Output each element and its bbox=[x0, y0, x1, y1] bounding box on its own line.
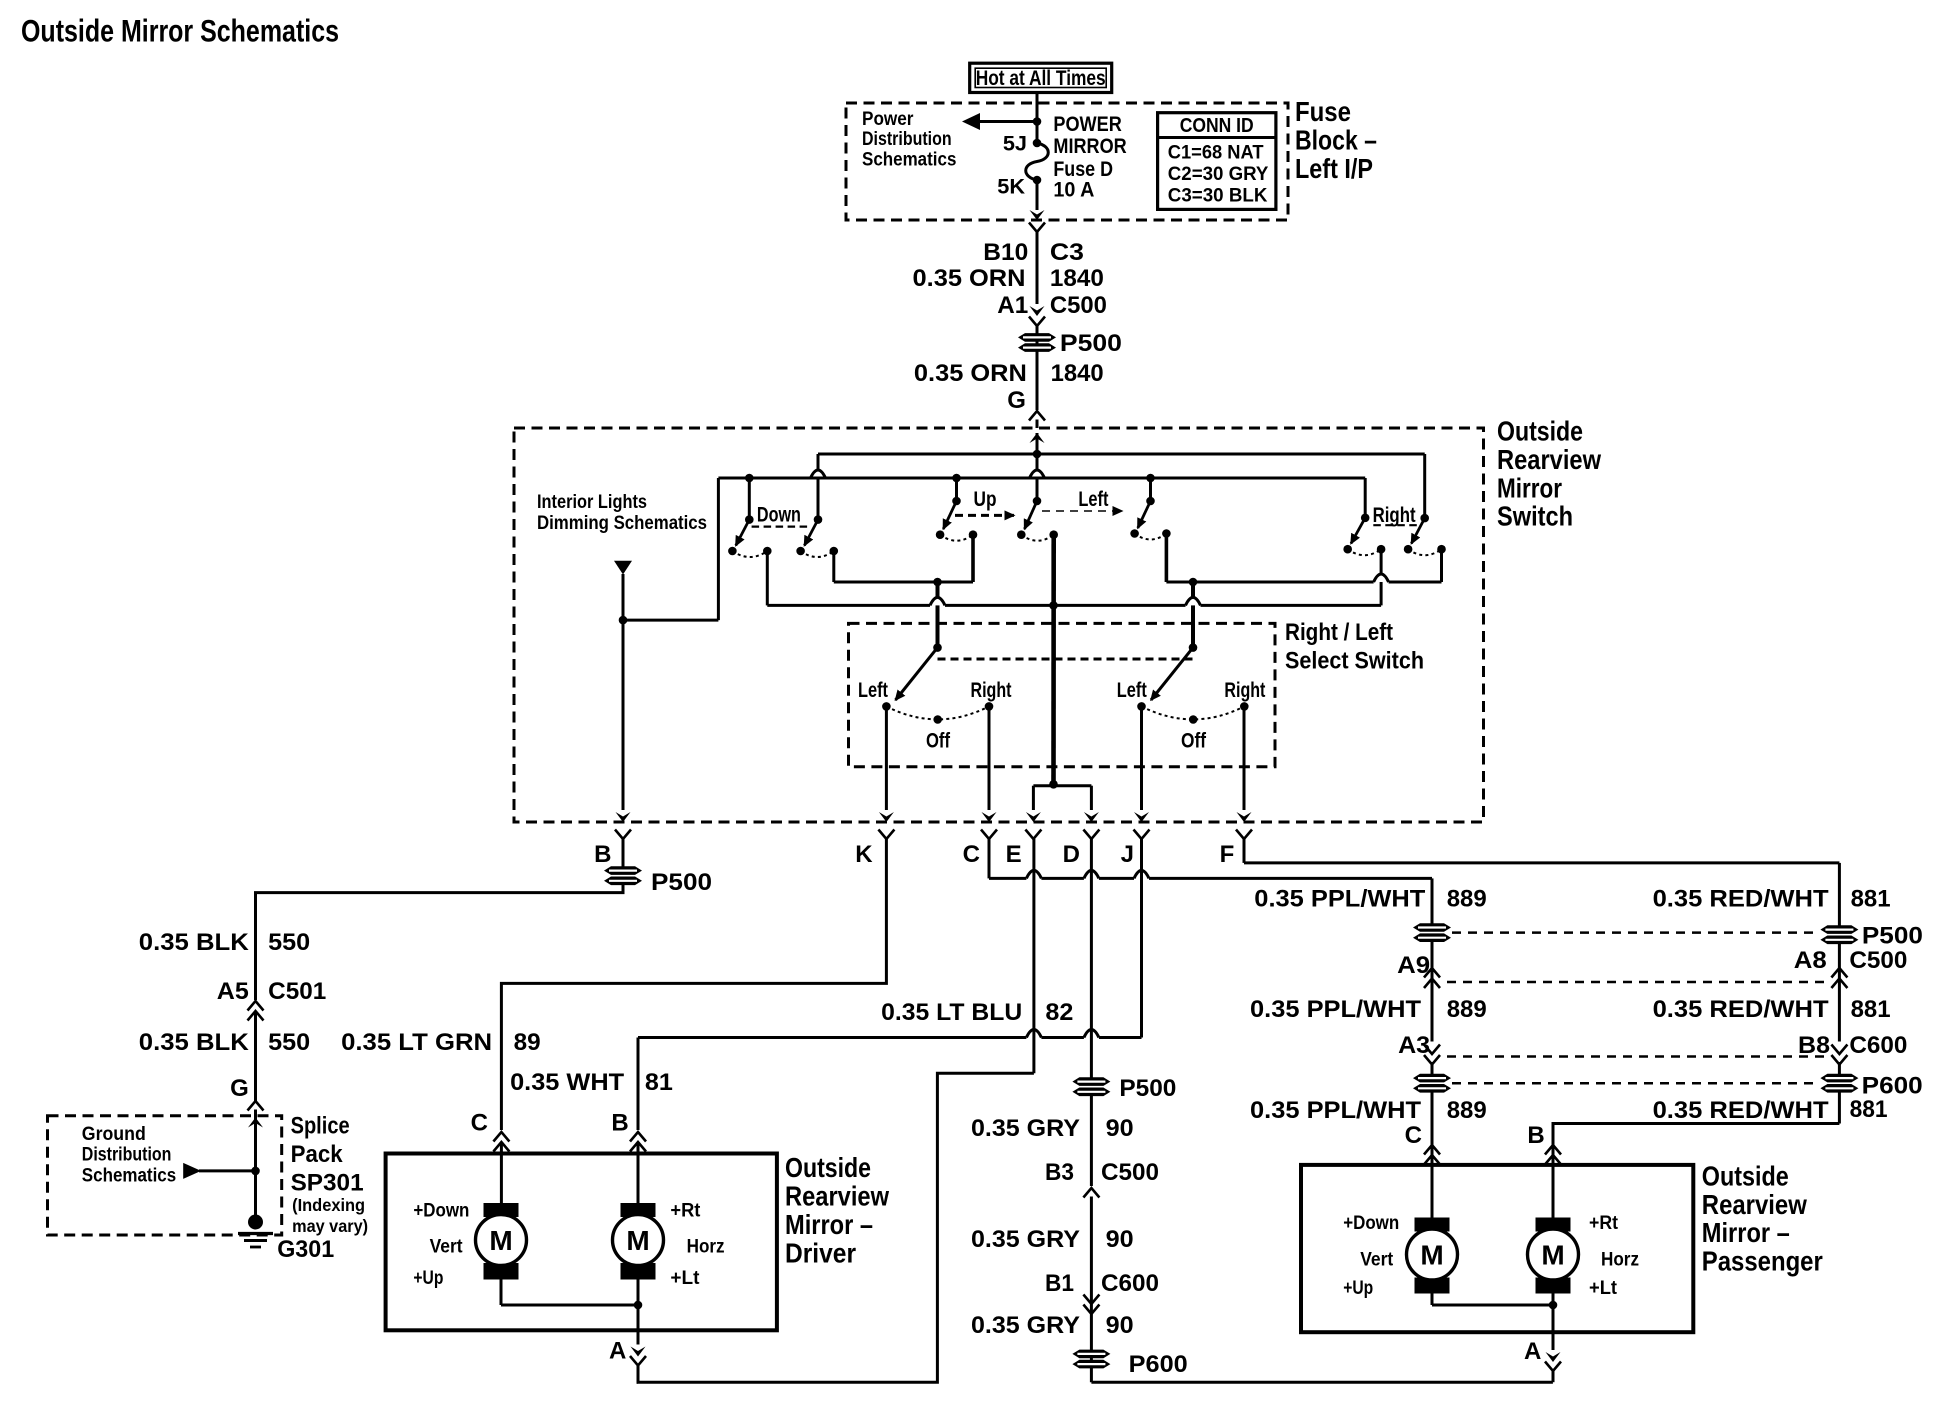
passenger motor common wire bbox=[1431, 1294, 1434, 1306]
junction bbox=[1033, 117, 1042, 126]
svg-text:90: 90 bbox=[1106, 1312, 1134, 1339]
svg-text:B10: B10 bbox=[983, 239, 1028, 266]
svg-text:Dimming Schematics: Dimming Schematics bbox=[537, 513, 707, 534]
wire sw1R to bus3 bbox=[766, 551, 769, 605]
driver B chevrons bbox=[630, 1132, 646, 1142]
svg-text:Switch: Switch bbox=[1497, 501, 1573, 532]
hot at all times box bbox=[970, 63, 1112, 92]
svg-text:Left: Left bbox=[1078, 488, 1108, 511]
svg-text:C: C bbox=[1405, 1122, 1422, 1149]
svg-text:C3=30 BLK: C3=30 BLK bbox=[1168, 186, 1268, 207]
svg-text:Schematics: Schematics bbox=[82, 1165, 176, 1186]
connector P600 on RED/WHT bbox=[1820, 1074, 1858, 1083]
connector C500 crossing arrow bbox=[1030, 306, 1045, 316]
svg-text:B: B bbox=[611, 1110, 628, 1137]
svg-text:M: M bbox=[1541, 1240, 1564, 1271]
svg-text:0.35 RED/WHT: 0.35 RED/WHT bbox=[1653, 1097, 1829, 1124]
svg-text:B: B bbox=[594, 841, 611, 868]
svg-text:C501: C501 bbox=[268, 978, 326, 1005]
driver horz motor bbox=[621, 1203, 656, 1217]
wire fuse output B10/C3 bbox=[1029, 223, 1045, 233]
svg-text:M: M bbox=[489, 1225, 512, 1256]
svg-text:C1=68 NAT: C1=68 NAT bbox=[1168, 143, 1264, 164]
svg-text:+Down: +Down bbox=[413, 1201, 469, 1222]
svg-text:MIRROR: MIRROR bbox=[1053, 133, 1127, 158]
svg-text:F: F bbox=[1220, 841, 1235, 868]
down linkage bbox=[752, 525, 810, 527]
right linkage bbox=[1373, 524, 1419, 526]
svg-text:90: 90 bbox=[1106, 1226, 1134, 1253]
svg-text:Pack: Pack bbox=[291, 1141, 344, 1168]
svg-text:+Down: +Down bbox=[1343, 1213, 1399, 1234]
B8 chevrons bbox=[1831, 1045, 1847, 1055]
outside rearview mirror driver box bbox=[386, 1154, 777, 1331]
svg-text:Right: Right bbox=[1224, 679, 1265, 702]
svg-text:Passenger: Passenger bbox=[1702, 1246, 1823, 1277]
svg-text:Mirror –: Mirror – bbox=[1702, 1217, 1790, 1248]
svg-text:5K: 5K bbox=[997, 174, 1025, 199]
svg-text:K: K bbox=[855, 841, 873, 868]
connector P500 bbox=[1018, 333, 1056, 342]
svg-text:+Rt: +Rt bbox=[1589, 1213, 1619, 1234]
svg-text:Mirror –: Mirror – bbox=[785, 1209, 873, 1240]
svg-text:SP301: SP301 bbox=[291, 1170, 364, 1197]
left linkage arrow bbox=[1042, 510, 1122, 512]
wire to power distribution with arrow bbox=[979, 120, 1037, 123]
svg-text:P500: P500 bbox=[1060, 330, 1122, 357]
connector P600 on D wire bbox=[1072, 1350, 1110, 1359]
connector P500 on RED/WHT bbox=[1820, 925, 1858, 934]
svg-text:C2=30 GRY: C2=30 GRY bbox=[1168, 164, 1269, 185]
svg-text:P500: P500 bbox=[651, 869, 712, 896]
svg-text:C600: C600 bbox=[1849, 1032, 1907, 1059]
svg-text:881: 881 bbox=[1851, 996, 1891, 1023]
svg-text:G301: G301 bbox=[277, 1236, 334, 1263]
svg-text:550: 550 bbox=[268, 929, 310, 956]
svg-text:D: D bbox=[1063, 841, 1080, 868]
svg-text:0.35 BLK: 0.35 BLK bbox=[139, 1029, 250, 1056]
svg-text:G: G bbox=[230, 1075, 249, 1102]
connector P500 on B wire bbox=[604, 866, 642, 875]
svg-text:889: 889 bbox=[1447, 886, 1487, 913]
switch left bbox=[1146, 497, 1155, 506]
wire sw2R to bus4 bbox=[832, 551, 835, 582]
svg-text:Right: Right bbox=[971, 679, 1012, 702]
right/left select switch box bbox=[849, 623, 1276, 766]
select contact wires to outputs K C J F bbox=[885, 706, 888, 810]
select linkage bbox=[938, 658, 1194, 661]
svg-text:10 A: 10 A bbox=[1053, 177, 1094, 202]
svg-text:B8: B8 bbox=[1798, 1032, 1830, 1059]
wire interior lights to B output bbox=[622, 574, 625, 810]
switch down B bbox=[814, 515, 823, 524]
svg-text:0.35 ORN: 0.35 ORN bbox=[914, 360, 1027, 387]
wire J to driver mirror B bbox=[1140, 839, 1143, 1038]
svg-text:C500: C500 bbox=[1050, 292, 1107, 319]
svg-text:81: 81 bbox=[645, 1069, 673, 1096]
driver vert motor bbox=[484, 1203, 519, 1217]
svg-text:550: 550 bbox=[268, 1029, 310, 1056]
svg-text:Outside: Outside bbox=[1702, 1160, 1789, 1191]
svg-text:B: B bbox=[1527, 1122, 1544, 1149]
svg-text:Vert: Vert bbox=[1360, 1250, 1394, 1271]
wire sw5R to bus5 bbox=[1165, 534, 1169, 583]
svg-text:+Rt: +Rt bbox=[670, 1201, 701, 1222]
svg-text:889: 889 bbox=[1447, 1097, 1487, 1124]
svg-text:Distribution: Distribution bbox=[862, 129, 952, 150]
up linkage arrow bbox=[955, 514, 1014, 517]
bus2 bbox=[718, 477, 1365, 480]
bus4 bbox=[834, 581, 973, 584]
svg-text:P600: P600 bbox=[1129, 1351, 1188, 1378]
ground distribution box bbox=[48, 1116, 282, 1235]
svg-text:B1: B1 bbox=[1045, 1270, 1074, 1297]
connector B3/C500 chevron bbox=[1083, 1188, 1099, 1198]
stem bus4 to select left pivot bbox=[936, 582, 940, 598]
A3 chevrons bbox=[1424, 1045, 1440, 1055]
passenger vert motor bbox=[1415, 1218, 1450, 1232]
svg-text:Right / Left: Right / Left bbox=[1285, 619, 1393, 646]
svg-text:Ground: Ground bbox=[82, 1124, 146, 1145]
svg-text:A: A bbox=[609, 1338, 626, 1365]
CONN ID table bbox=[1158, 113, 1276, 210]
wire F to passenger mirror B bbox=[1243, 839, 1246, 863]
svg-text:A: A bbox=[1524, 1338, 1541, 1365]
G entry arrow into switch bbox=[1030, 433, 1045, 443]
svg-text:881: 881 bbox=[1850, 1096, 1888, 1123]
ground distribution takeoff arrow bbox=[199, 1169, 256, 1172]
svg-text:89: 89 bbox=[514, 1029, 541, 1056]
svg-text:+Up: +Up bbox=[413, 1268, 443, 1289]
connector B1/C600 chevrons bbox=[1083, 1295, 1099, 1305]
svg-text:Off: Off bbox=[1181, 730, 1207, 753]
svg-text:+Lt: +Lt bbox=[670, 1268, 700, 1289]
svg-text:0.35 GRY: 0.35 GRY bbox=[971, 1115, 1080, 1142]
svg-text:B3: B3 bbox=[1045, 1159, 1074, 1186]
svg-text:0.35 PPL/WHT: 0.35 PPL/WHT bbox=[1250, 1097, 1421, 1124]
svg-text:J: J bbox=[1121, 841, 1134, 868]
svg-text:0.35 BLK: 0.35 BLK bbox=[139, 929, 250, 956]
svg-text:C: C bbox=[963, 841, 980, 868]
bus1 bbox=[818, 453, 1425, 456]
svg-text:0.35 RED/WHT: 0.35 RED/WHT bbox=[1653, 996, 1829, 1023]
passenger horz motor bbox=[1536, 1218, 1571, 1232]
svg-text:Block –: Block – bbox=[1295, 125, 1377, 156]
wire to passenger B bbox=[1553, 1124, 1839, 1163]
svg-text:Fuse: Fuse bbox=[1295, 96, 1351, 127]
passenger wires into box bbox=[1431, 1155, 1434, 1218]
A9 chevrons bbox=[1424, 968, 1440, 978]
wire B to splice pack bbox=[256, 885, 624, 1001]
switch up A bbox=[952, 497, 961, 506]
svg-text:M: M bbox=[626, 1225, 649, 1256]
switch right B bbox=[1420, 514, 1429, 523]
svg-text:Outside: Outside bbox=[785, 1152, 871, 1183]
svg-text:0.35 ORN: 0.35 ORN bbox=[913, 265, 1026, 292]
switch right A bbox=[1361, 514, 1370, 523]
svg-text:Horz: Horz bbox=[687, 1237, 725, 1258]
svg-text:may vary): may vary) bbox=[292, 1216, 368, 1236]
svg-text:Select Switch: Select Switch bbox=[1285, 647, 1424, 674]
svg-text:Rearview: Rearview bbox=[1702, 1189, 1807, 1220]
svg-text:90: 90 bbox=[1106, 1115, 1134, 1142]
connector P600 on PPL/WHT bbox=[1413, 1074, 1451, 1083]
svg-text:0.35 GRY: 0.35 GRY bbox=[971, 1226, 1080, 1253]
svg-text:A1: A1 bbox=[997, 292, 1028, 319]
svg-text:Rearview: Rearview bbox=[1497, 444, 1601, 475]
svg-text:C500: C500 bbox=[1101, 1159, 1159, 1186]
switch down A bbox=[745, 515, 754, 524]
svg-text:Splice: Splice bbox=[291, 1113, 350, 1140]
select switch left bbox=[933, 643, 942, 652]
fuse D 10A symbol bbox=[1033, 139, 1042, 148]
svg-text:C3: C3 bbox=[1050, 239, 1084, 266]
svg-text:Rearview: Rearview bbox=[785, 1181, 889, 1212]
svg-text:889: 889 bbox=[1447, 996, 1487, 1023]
svg-text:C500: C500 bbox=[1849, 947, 1907, 974]
svg-text:A8: A8 bbox=[1794, 947, 1827, 974]
svg-text:+Lt: +Lt bbox=[1589, 1278, 1618, 1299]
wire E to driver mirror A bbox=[1032, 839, 1035, 1073]
outside rearview mirror passenger box bbox=[1301, 1165, 1693, 1332]
svg-text:Horz: Horz bbox=[1601, 1250, 1639, 1271]
ground entry arrow bbox=[248, 1118, 263, 1128]
interior lights takeoff triangle bbox=[614, 561, 632, 575]
connector index dashed lines bbox=[1452, 931, 1817, 934]
driver C chevrons bbox=[493, 1132, 509, 1142]
svg-text:Power: Power bbox=[862, 109, 914, 130]
wire D with P500 bbox=[1090, 839, 1093, 1078]
svg-text:Interior Lights: Interior Lights bbox=[537, 492, 647, 513]
wire bus5 to swB right contact bbox=[1440, 549, 1443, 582]
svg-text:C600: C600 bbox=[1101, 1270, 1159, 1297]
svg-text:Mirror: Mirror bbox=[1497, 472, 1562, 503]
svg-text:1840: 1840 bbox=[1050, 265, 1104, 292]
connector A5/C501 chevrons bbox=[248, 1001, 264, 1011]
svg-text:Outside: Outside bbox=[1497, 416, 1583, 447]
A8 chevrons bbox=[1831, 968, 1847, 978]
svg-text:Left: Left bbox=[858, 679, 888, 702]
svg-text:Left I/P: Left I/P bbox=[1295, 153, 1373, 184]
svg-text:Left: Left bbox=[1117, 679, 1147, 702]
wire fuse to box edge with arrow bbox=[1036, 180, 1039, 210]
fuse block box bbox=[846, 103, 1288, 220]
svg-text:0.35 PPL/WHT: 0.35 PPL/WHT bbox=[1254, 886, 1425, 913]
svg-text:Right: Right bbox=[1373, 504, 1416, 527]
svg-text:1840: 1840 bbox=[1051, 360, 1104, 387]
svg-text:881: 881 bbox=[1851, 886, 1891, 913]
wire from hot at all times bbox=[1036, 93, 1039, 144]
wire bus4 to sw3R bbox=[971, 535, 975, 582]
svg-text:(Indexing: (Indexing bbox=[292, 1195, 365, 1215]
ground entry chevron bbox=[248, 1101, 264, 1111]
wire D to passenger A bbox=[1091, 1381, 1552, 1384]
svg-text:0.35 PPL/WHT: 0.35 PPL/WHT bbox=[1250, 996, 1421, 1023]
wire C to passenger mirror C bbox=[988, 839, 991, 878]
svg-text:Driver: Driver bbox=[785, 1237, 856, 1268]
svg-text:C: C bbox=[471, 1110, 488, 1137]
driver motor common wire bbox=[500, 1280, 503, 1306]
heavy wire sw4R down the middle bbox=[1051, 535, 1056, 785]
bus3 bbox=[767, 604, 930, 607]
connector P500 on PPL/WHT bbox=[1413, 923, 1451, 932]
svg-text:CONN ID: CONN ID bbox=[1180, 115, 1254, 137]
svg-text:0.35 RED/WHT: 0.35 RED/WHT bbox=[1653, 886, 1829, 913]
splice junction bbox=[251, 1167, 260, 1176]
svg-text:Up: Up bbox=[974, 488, 997, 511]
svg-text:5J: 5J bbox=[1003, 131, 1027, 156]
wire swA right contact to bus3 bbox=[1380, 549, 1383, 574]
svg-text:Vert: Vert bbox=[430, 1237, 464, 1258]
switch up B bbox=[1033, 497, 1042, 506]
svg-text:Hot at All Times: Hot at All Times bbox=[976, 65, 1106, 90]
wire K to driver mirror C bbox=[501, 839, 886, 1130]
svg-text:+Up: +Up bbox=[1343, 1278, 1373, 1299]
ground G301 bbox=[248, 1215, 263, 1230]
svg-text:Schematics: Schematics bbox=[862, 150, 956, 171]
svg-text:M: M bbox=[1420, 1240, 1443, 1271]
svg-text:82: 82 bbox=[1045, 999, 1073, 1026]
wire B to P500 bbox=[622, 839, 625, 867]
svg-text:Distribution: Distribution bbox=[82, 1145, 172, 1166]
svg-text:Down: Down bbox=[757, 504, 801, 527]
svg-text:Outside Mirror Schematics: Outside Mirror Schematics bbox=[21, 13, 339, 49]
select switch right bbox=[1189, 643, 1198, 652]
outside rearview mirror switch box bbox=[514, 428, 1484, 822]
svg-text:P500: P500 bbox=[1119, 1075, 1176, 1102]
E/D split bbox=[1033, 784, 1091, 787]
stem bus5 to select right pivot bbox=[1191, 582, 1195, 598]
svg-text:P500: P500 bbox=[1862, 923, 1923, 950]
svg-text:0.35 WHT: 0.35 WHT bbox=[510, 1069, 624, 1096]
svg-text:G: G bbox=[1007, 387, 1026, 414]
svg-text:0.35 LT GRN: 0.35 LT GRN bbox=[341, 1029, 492, 1056]
bus5 bbox=[1166, 581, 1373, 584]
svg-text:0.35 LT BLU: 0.35 LT BLU bbox=[881, 999, 1022, 1026]
svg-text:Off: Off bbox=[926, 730, 951, 753]
svg-text:E: E bbox=[1006, 841, 1022, 868]
svg-text:0.35 GRY: 0.35 GRY bbox=[971, 1312, 1080, 1339]
svg-text:A5: A5 bbox=[217, 978, 249, 1005]
